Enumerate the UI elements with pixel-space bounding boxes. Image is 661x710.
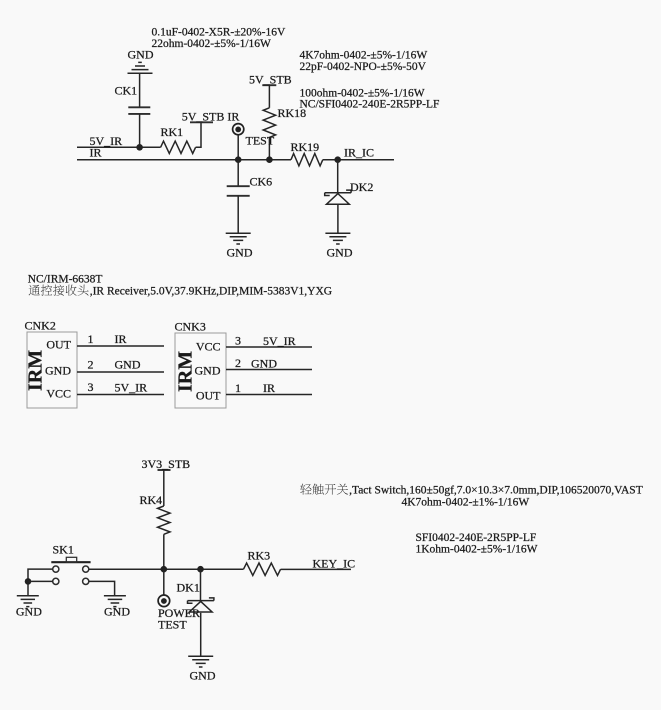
wire RK4 to key net	[163, 534, 165, 569]
svg-text:GND: GND	[128, 48, 154, 62]
wire SK1 bottom-left to junction	[28, 580, 53, 582]
svg-text:GND: GND	[115, 358, 141, 372]
CNK3 pin 1 wire IR	[226, 394, 312, 396]
svg-text:RK18: RK18	[278, 106, 307, 120]
connector CNK2 body	[27, 332, 77, 408]
svg-text:GND: GND	[195, 364, 221, 378]
svg-text:1Kohm-0402-±5%-1/16W: 1Kohm-0402-±5%-1/16W	[416, 544, 538, 556]
svg-text:SK1: SK1	[53, 543, 74, 557]
svg-text:CNK3: CNK3	[175, 320, 206, 334]
switch SK1 actuator bar	[51, 561, 90, 563]
svg-text:IR: IR	[263, 381, 275, 395]
capacitor CK1	[128, 107, 150, 114]
diode DK2 triangle	[327, 194, 350, 205]
svg-text:,Tact Switch,160±50gf,7.0×10.3: ,Tact Switch,160±50gf,7.0×10.3×7.0mm,DIP…	[349, 485, 643, 497]
svg-text:DK1: DK1	[177, 581, 200, 595]
svg-text:1: 1	[88, 332, 94, 346]
svg-text:RK4: RK4	[140, 493, 163, 507]
junction IR_IC at DK2	[334, 156, 341, 163]
ground symbol under DK2	[325, 233, 350, 244]
CNK2 pin 1 wire IR	[77, 345, 164, 347]
power bar 3V3_STB	[158, 469, 171, 471]
ground symbol left of SK1	[17, 596, 39, 607]
svg-text:IR_IC: IR_IC	[344, 146, 374, 160]
resistor RK19	[291, 154, 323, 166]
svg-text:GND: GND	[227, 246, 253, 260]
svg-text:NC/IRM-6638T: NC/IRM-6638T	[28, 274, 103, 286]
resistor RK4	[158, 506, 170, 534]
wire IR main right	[323, 159, 394, 161]
wire key net to DK1	[200, 569, 202, 600]
diode DK1 triangle	[189, 601, 212, 612]
ground symbol top (above CK1)	[128, 62, 153, 73]
svg-text:DK2: DK2	[350, 180, 373, 194]
CNK2 pin 2 wire GND	[77, 371, 164, 373]
diode DK1 cathode bar	[188, 598, 214, 603]
junction at left GND drop	[25, 578, 32, 585]
note IR receiver description (CJK)	[29, 285, 40, 296]
svg-text:RK3: RK3	[248, 549, 271, 563]
svg-text:,IR Receiver,5.0V,37.9KHz,DIP,: ,IR Receiver,5.0V,37.9KHz,DIP,MIM-5383V1…	[90, 286, 332, 298]
svg-text:GND: GND	[45, 364, 71, 378]
note tact switch description (CJK)	[300, 484, 311, 495]
junction IR at CK6	[235, 156, 242, 163]
svg-text:3V3_STB: 3V3_STB	[142, 457, 191, 471]
svg-text:TEST: TEST	[246, 134, 275, 148]
svg-text:CK1: CK1	[115, 84, 138, 98]
svg-text:OUT: OUT	[196, 389, 221, 403]
svg-text:TEST: TEST	[158, 618, 187, 632]
svg-text:GND: GND	[16, 605, 42, 619]
wire 5V_STB to RK18	[268, 85, 270, 108]
wire junction to POWER test point	[163, 569, 165, 595]
power bar 5V_STB (RK18)	[262, 84, 276, 86]
power bar 5V_STB (at RK1)	[190, 121, 213, 123]
svg-text:VCC: VCC	[46, 387, 71, 401]
svg-text:3: 3	[88, 380, 94, 394]
svg-text:22pF-0402-NPO-±5%-50V: 22pF-0402-NPO-±5%-50V	[300, 61, 427, 73]
wire IR_IC to DK2	[337, 160, 339, 193]
svg-text:5V_STB IR: 5V_STB IR	[182, 110, 240, 124]
svg-text:5V_STB: 5V_STB	[249, 73, 292, 87]
svg-text:2: 2	[88, 358, 94, 372]
wire test point to IR	[237, 135, 239, 160]
svg-text:5V_IR: 5V_IR	[263, 334, 296, 348]
wire 5V_IR	[77, 146, 161, 148]
svg-text:GND: GND	[190, 669, 216, 683]
junction on 5V_IR at CK1	[136, 144, 143, 151]
ground symbol under DK1	[188, 656, 213, 667]
wire 3V3_STB to RK4	[163, 470, 165, 506]
svg-text:IR: IR	[115, 332, 127, 346]
wire SK1 bottom-right to GND	[89, 581, 115, 595]
svg-text:4K7ohm-0402-±5%-1/16W: 4K7ohm-0402-±5%-1/16W	[300, 50, 428, 62]
junction key net at DK1	[197, 566, 204, 573]
wire GND to CK1	[139, 73, 141, 107]
svg-text:RK1: RK1	[161, 125, 184, 139]
svg-text:CNK2: CNK2	[25, 319, 56, 333]
switch SK1 contact top-left	[53, 566, 59, 572]
wire RK1 to 5V_STB	[196, 122, 201, 147]
test point POWER	[158, 595, 170, 607]
junction key net at RK4	[161, 566, 168, 573]
svg-text:0.1uF-0402-X5R-±20%-16V: 0.1uF-0402-X5R-±20%-16V	[152, 27, 286, 39]
wire IR to CK6	[237, 160, 239, 186]
svg-text:GND: GND	[327, 246, 353, 260]
svg-text:NC/SFI0402-240E-2R5PP-LF: NC/SFI0402-240E-2R5PP-LF	[300, 99, 440, 111]
svg-text:1: 1	[235, 381, 241, 395]
capacitor CK6	[227, 186, 250, 196]
ground symbol right of SK1	[104, 596, 126, 607]
svg-text:2: 2	[235, 356, 241, 370]
ground symbol under CK6	[226, 233, 251, 244]
test point TEST (IR)	[233, 124, 244, 135]
junction IR at RK18	[266, 156, 273, 163]
switch SK1 contact top-right	[83, 566, 89, 572]
svg-text:VCC: VCC	[196, 340, 221, 354]
wire RK18 to IR	[268, 137, 270, 159]
svg-text:GND: GND	[104, 605, 130, 619]
switch SK1 contact bottom-right	[83, 578, 89, 584]
CNK2 pin 3 wire 5V_IR	[77, 394, 164, 396]
resistor RK3	[244, 563, 281, 575]
svg-text:SFI0402-240E-2R5PP-LF: SFI0402-240E-2R5PP-LF	[416, 532, 537, 544]
svg-text:KEY_IC: KEY_IC	[313, 557, 356, 571]
wire DK2 to ground	[337, 205, 339, 233]
svg-text:IRM: IRM	[25, 350, 47, 391]
svg-text:CK6: CK6	[250, 175, 273, 189]
connector CNK3 body	[175, 333, 226, 408]
resistor RK1	[161, 141, 196, 153]
wire CK6 to ground	[237, 196, 239, 233]
wire IR main left	[77, 159, 291, 161]
wire CK1 to 5V_IR net	[139, 114, 141, 147]
wire RK3 to KEY_IC	[281, 568, 351, 570]
resistor RK18	[263, 108, 275, 138]
svg-text:RK19: RK19	[291, 140, 320, 154]
CNK3 pin 2 wire GND	[226, 369, 312, 371]
CNK3 pin 3 wire 5V_IR	[226, 346, 312, 348]
svg-text:IR: IR	[90, 146, 102, 160]
switch SK1 button	[66, 557, 76, 562]
svg-text:OUT: OUT	[46, 338, 71, 352]
switch SK1 contact bottom-left	[53, 578, 59, 584]
wire key net	[89, 568, 244, 570]
wire DK1 to ground	[200, 613, 202, 656]
svg-text:5V_IR: 5V_IR	[115, 381, 148, 395]
svg-text:4K7ohm-0402-±1%-1/16W: 4K7ohm-0402-±1%-1/16W	[402, 497, 530, 509]
svg-text:IRM: IRM	[175, 351, 197, 392]
svg-text:22ohm-0402-±5%-1/16W: 22ohm-0402-±5%-1/16W	[152, 38, 272, 50]
diode DK2 cathode bar	[325, 190, 351, 195]
svg-text:GND: GND	[251, 357, 277, 371]
svg-text:3: 3	[235, 334, 241, 348]
wire SK1 top-left to GND drop	[28, 569, 53, 595]
